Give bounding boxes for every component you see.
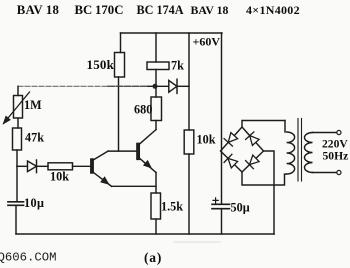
svg-text:(a): (a) — [144, 250, 162, 265]
svg-text:7k: 7k — [171, 59, 184, 73]
svg-text:BAV 18: BAV 18 — [191, 3, 229, 17]
svg-text:680: 680 — [134, 103, 152, 117]
svg-text:47k: 47k — [25, 131, 44, 145]
svg-text:1.5k: 1.5k — [161, 200, 183, 214]
svg-text:10k: 10k — [197, 133, 216, 147]
svg-text:1M: 1M — [24, 98, 42, 112]
svg-text:4×1N4002: 4×1N4002 — [246, 3, 300, 17]
svg-text:170C: 170C — [95, 3, 123, 17]
svg-text:BC: BC — [75, 3, 93, 17]
svg-text:Q606.COM: Q606.COM — [0, 251, 57, 265]
svg-text:10μ: 10μ — [24, 196, 44, 210]
svg-text:50Hz: 50Hz — [323, 149, 349, 162]
svg-text:10k: 10k — [50, 170, 69, 184]
svg-text:220V: 220V — [322, 137, 348, 150]
svg-text:150k: 150k — [87, 57, 115, 72]
svg-text:BC 174A: BC 174A — [137, 3, 184, 17]
svg-text:50μ: 50μ — [231, 201, 250, 215]
svg-text:+60V: +60V — [193, 35, 221, 49]
svg-text:BAV 18: BAV 18 — [17, 3, 59, 17]
